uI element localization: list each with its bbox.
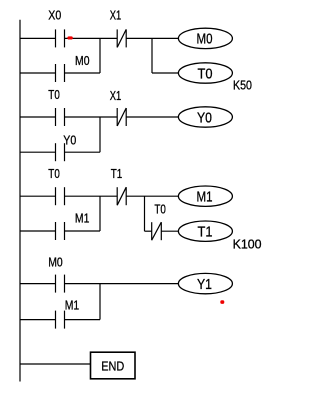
END box [91, 352, 136, 379]
coil M0 [178, 28, 232, 48]
svg-text:T0: T0 [198, 66, 213, 82]
wire branch4 right [65, 319, 101, 321]
svg-text:X1: X1 [110, 9, 122, 23]
svg-text:Y0: Y0 [63, 134, 76, 148]
wire rung5 [20, 363, 91, 365]
coil Y0 [178, 107, 232, 127]
wire rung3 mid [65, 195, 118, 197]
red cursor dash after X0 [67, 36, 72, 39]
wire T1-coil branch horizontal [145, 230, 152, 232]
wire branch4 left [20, 319, 56, 321]
contact M1 (rung4 parallel) [56, 311, 65, 329]
wire rung1 mid [65, 37, 118, 39]
contact M0 (rung1 parallel) [56, 64, 65, 82]
svg-text:K100: K100 [233, 238, 262, 252]
wire branch1 right [65, 72, 101, 74]
contact T0 sub-branch (NC) [152, 222, 162, 240]
wire to T1 coil [161, 230, 178, 232]
wire branch3 right [65, 230, 101, 232]
red dot below Y1 coil [220, 300, 224, 304]
svg-text:M1: M1 [197, 190, 213, 206]
contact T0 (rung2) [56, 108, 65, 126]
contact X0 [56, 29, 65, 47]
svg-text:END: END [101, 359, 124, 373]
wire T0-coil branch vertical [151, 38, 153, 73]
wire rung4 right [65, 283, 179, 285]
svg-text:Y1: Y1 [197, 277, 212, 293]
wire branch4 vertical join [99, 284, 101, 320]
wire rung2 right [126, 116, 178, 118]
wire branch2 vertical join [99, 117, 101, 152]
coil T1 [178, 221, 232, 241]
svg-text:T1: T1 [198, 225, 213, 241]
svg-text:Y0: Y0 [197, 110, 212, 126]
svg-text:M0: M0 [197, 32, 213, 48]
svg-text:T0: T0 [154, 203, 166, 217]
svg-text:T0: T0 [48, 167, 60, 181]
contact M0 (rung4) [56, 275, 65, 293]
wire rung2 mid [65, 116, 118, 118]
contact Y0 (rung2 parallel) [56, 143, 65, 161]
wire T1-coil branch vertical [144, 196, 146, 231]
svg-text:M1: M1 [65, 298, 80, 312]
wire branch2 right [65, 151, 101, 153]
contact M1 (rung3 parallel) [56, 222, 65, 240]
coil T0 [178, 63, 232, 83]
svg-text:M0: M0 [48, 256, 63, 270]
wire branch3 vertical join [99, 196, 101, 231]
wire to T0 coil [152, 72, 179, 74]
contact T1 (NC) [117, 187, 126, 205]
wire rung3 right [126, 195, 178, 197]
wire rung2 left [20, 116, 56, 118]
svg-text:M0: M0 [75, 54, 90, 68]
wire branch1 vertical join [99, 38, 101, 73]
wire rung4 left [20, 283, 56, 285]
wire rung1 left [20, 37, 56, 39]
svg-text:T0: T0 [48, 88, 60, 102]
wire branch2 left [20, 151, 56, 153]
wire branch3 left [20, 230, 56, 232]
wire rung1 right [126, 37, 178, 39]
contact X1 rung2 (NC) [117, 108, 126, 126]
svg-text:X0: X0 [48, 9, 61, 23]
contact X1 (NC) [117, 29, 126, 47]
contact T0 (rung3) [56, 187, 65, 205]
coil M1 [178, 186, 232, 206]
wire rung3 left [20, 195, 56, 197]
svg-text:K50: K50 [233, 79, 252, 93]
svg-text:M1: M1 [75, 212, 90, 226]
svg-text:T1: T1 [111, 167, 123, 181]
coil Y1 [178, 273, 232, 293]
wire branch1 left [20, 72, 56, 74]
svg-text:X1: X1 [110, 89, 122, 103]
left power rail [19, 20, 21, 382]
